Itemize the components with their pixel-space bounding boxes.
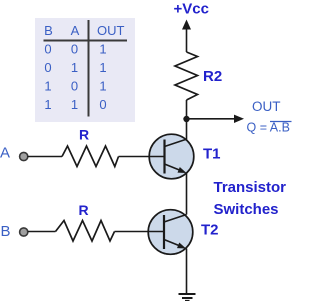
svg-text:OUT: OUT [97,23,125,38]
svg-text:1: 1 [71,60,78,75]
truth table background [35,18,135,122]
wire T2 emitter to ground [186,249,188,294]
svg-text:A: A [0,145,10,162]
svg-text:1: 1 [99,78,106,93]
svg-text:0: 0 [71,78,78,93]
svg-text:Q = A.B: Q = A.B [247,121,290,135]
wire resistor to T2 base [115,231,165,233]
transistor T1 [149,134,194,179]
svg-text:1: 1 [99,60,106,75]
resistor R (input B) [56,221,115,242]
svg-text:Transistor: Transistor [214,179,287,196]
svg-text:0: 0 [71,42,78,57]
OUT arrow [187,115,245,123]
truth table row 3 [44,78,106,93]
wire B terminal to resistor [28,231,56,233]
truth table row 2 [44,60,106,75]
wire R2 to output node [186,100,188,140]
svg-text:0: 0 [44,42,51,57]
svg-text:Switches: Switches [214,201,279,218]
svg-text:B: B [44,23,53,38]
svg-text:0: 0 [99,97,106,112]
svg-text:1: 1 [44,97,51,112]
svg-text:A: A [71,23,80,38]
svg-text:R2: R2 [203,68,222,85]
wire A terminal to resistor [28,156,63,158]
input B terminal [20,228,28,236]
wire T1 emitter to T2 collector [186,173,188,215]
svg-text:1: 1 [44,78,51,93]
svg-text:B: B [1,223,11,240]
Transistor Switches caption [214,179,287,218]
ground [179,294,196,301]
node junction dot [183,116,189,122]
svg-text:T2: T2 [201,222,219,239]
svg-text:1: 1 [99,42,106,57]
wire resistor to T1 base [119,156,165,158]
svg-text:R: R [79,127,89,143]
svg-text:OUT: OUT [252,99,281,114]
svg-text:+Vcc: +Vcc [174,1,209,18]
truth table header divider [44,40,128,42]
svg-text:R: R [78,202,88,218]
truth table column divider [88,20,90,117]
svg-text:T1: T1 [203,146,221,163]
Q = A.B output equation [247,121,292,135]
input A terminal [20,152,28,160]
svg-text:1: 1 [71,97,78,112]
+Vcc arrow [182,20,191,53]
svg-text:0: 0 [44,60,51,75]
resistor R2 [175,52,198,100]
truth table row 4 [44,97,106,112]
truth table header row [44,23,124,38]
transistor T2 [148,210,193,255]
truth table row 1 [44,42,106,57]
resistor R (input A) [62,146,119,167]
